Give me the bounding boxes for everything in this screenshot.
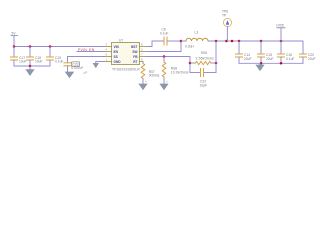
capacitor C8: [160, 28, 168, 46]
svg-text:U?: U?: [119, 39, 123, 43]
ground output: [255, 63, 264, 71]
node SW: [180, 40, 183, 43]
capacitor C18: [27, 47, 43, 67]
node input rail left: [13, 45, 16, 48]
svg-text:BST: BST: [131, 45, 137, 49]
svg-text:6: 6: [141, 58, 143, 62]
wire FB: [147, 56, 190, 58]
node FB tap: [215, 40, 218, 43]
node C14 tap: [238, 40, 241, 43]
svg-text:SW: SW: [132, 50, 137, 54]
node R06 right: [215, 62, 218, 65]
svg-text:FB: FB: [133, 55, 138, 59]
wire BST to C8: [147, 41, 164, 47]
op-amp U? ic body: [112, 39, 141, 72]
svg-text:1: 1: [106, 58, 108, 62]
pin 1 GND: [104, 58, 112, 62]
pin 6 RT: [140, 58, 144, 62]
svg-text:22uF: 22uF: [266, 57, 274, 61]
svg-text:10uF: 10uF: [19, 60, 27, 64]
power symbol 5V input: [11, 31, 18, 46]
svg-text:L3: L3: [195, 31, 199, 35]
svg-text:4: 4: [106, 48, 108, 52]
wire output rail: [208, 41, 303, 54]
capacitor C14: [236, 41, 252, 63]
pin 4 EN: [104, 48, 112, 52]
capacitor C15: [258, 41, 274, 63]
node C18 tap: [29, 45, 32, 48]
svg-text:SS: SS: [114, 55, 118, 59]
svg-text:TP: TP: [222, 14, 227, 18]
node R06 left: [189, 62, 192, 65]
wire EN: [77, 51, 104, 53]
svg-text:10uF: 10uF: [35, 60, 43, 64]
node C19 tap: [49, 45, 52, 48]
ground R08: [159, 84, 168, 91]
svg-text:7: 7: [141, 53, 143, 57]
node C16 tap: [280, 40, 283, 43]
svg-text:22uF: 22uF: [244, 57, 252, 61]
node R08 tap: [163, 55, 166, 58]
wire FB ladder left: [189, 57, 191, 73]
node C15 tap: [260, 40, 263, 43]
wire C22 row: [190, 72, 200, 74]
capacitor C16: [278, 41, 295, 63]
svg-text:h: h: [145, 80, 147, 84]
svg-text:3: 3: [106, 43, 108, 47]
svg-text:RT: RT: [133, 60, 137, 64]
capacitor C20: [300, 53, 316, 63]
capacitor C19: [47, 47, 64, 67]
capacitor C17: [11, 47, 27, 67]
wire GND pin: [96, 61, 104, 63]
wire FB ladder right up to rail: [215, 41, 217, 73]
svg-text:h: h: [166, 80, 168, 84]
wire SS: [68, 57, 105, 63]
svg-text:10.2kOhms: 10.2kOhms: [171, 70, 189, 74]
inductor L3: [181, 31, 208, 49]
node out gnd C16: [280, 62, 283, 65]
svg-text:0.047uF: 0.047uF: [71, 66, 83, 70]
capacitor C23: [64, 62, 83, 72]
node rail joint: [231, 40, 234, 43]
wire C8 to SW node: [167, 40, 181, 42]
node out gnd C15: [260, 62, 263, 65]
pin 7 FB: [140, 53, 148, 57]
svg-text:1V05: 1V05: [276, 24, 284, 28]
wire input rail: [14, 46, 104, 48]
svg-text:VIN: VIN: [114, 45, 120, 49]
resistor R06: [190, 51, 216, 65]
svg-text:EN: EN: [114, 50, 119, 54]
wire output gnd rail: [239, 62, 303, 64]
ground input: [25, 66, 34, 76]
pin 8 BST: [140, 43, 148, 47]
ground GND pin: [93, 62, 99, 69]
svg-text:2: 2: [141, 48, 143, 52]
test point TP8: [222, 10, 232, 42]
ground R07: [138, 84, 147, 91]
svg-text:0.1uF: 0.1uF: [55, 60, 63, 64]
resistor R08: [162, 57, 189, 84]
wire SW: [147, 41, 181, 52]
svg-text:0.3uH: 0.3uH: [185, 45, 194, 49]
svg-text:TPS62933DRLR: TPS62933DRLR: [112, 67, 140, 71]
node gnd rail: [29, 65, 32, 68]
capacitor C22: [200, 69, 208, 88]
svg-text:10pF: 10pF: [200, 84, 208, 88]
pin 2 SW: [140, 48, 148, 52]
svg-text:8: 8: [141, 43, 143, 47]
svg-text:R06: R06: [201, 51, 207, 55]
ground C23: [65, 72, 75, 79]
svg-text:5V: 5V: [12, 31, 17, 35]
power symbol 1V0 output: [276, 24, 285, 41]
pin 3 VIN: [104, 43, 112, 47]
resistor R07: [141, 62, 159, 84]
svg-text:0.1uF: 0.1uF: [286, 57, 294, 61]
svg-text:GND: GND: [114, 60, 122, 64]
svg-text:0.1uF: 0.1uF: [160, 32, 168, 36]
svg-text:2.55kOhms: 2.55kOhms: [196, 56, 215, 60]
svg-text:22uF: 22uF: [308, 57, 316, 61]
svg-text:uF: uF: [83, 70, 88, 75]
svg-text:5: 5: [106, 53, 108, 57]
svg-text:0Ohms: 0Ohms: [149, 74, 160, 78]
node TP tap: [225, 40, 228, 43]
pin 5 SS: [104, 53, 112, 57]
wire input gnd rail: [14, 65, 50, 67]
